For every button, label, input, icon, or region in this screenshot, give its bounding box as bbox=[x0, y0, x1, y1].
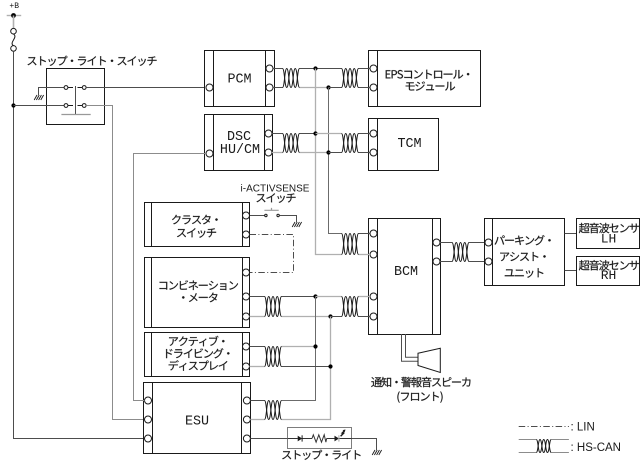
svg-text:PCM: PCM bbox=[227, 73, 251, 88]
ESU pin left 3 bbox=[145, 435, 152, 442]
module parking assist unit box bbox=[485, 219, 565, 286]
junction dot bus B row4 bbox=[328, 364, 332, 368]
switch contact top-right bbox=[82, 86, 86, 90]
wire pair to bus A dot row3 bbox=[282, 296, 316, 298]
wire parking to sensor RH bbox=[565, 270, 577, 272]
wire +B rail to switch lower contact bbox=[14, 105, 65, 107]
bus B vertical lower segment bbox=[282, 317, 331, 420]
wire +B rail down to ESU pin 3 bbox=[14, 51, 145, 438]
wire BCM pin r2 to pair bbox=[440, 261, 452, 263]
wire bus B dot to TCM pair bbox=[329, 152, 342, 154]
svg-text:+B: +B bbox=[9, 2, 19, 11]
bus A vertical upper segment bbox=[316, 69, 342, 255]
wire pair to EPS pin1 bbox=[359, 68, 371, 70]
module ultrasonic sensor RH box bbox=[577, 257, 640, 286]
DSC pin left bbox=[206, 150, 213, 157]
switch actuator bar bbox=[61, 114, 90, 116]
module DSC HU/CM box bbox=[205, 115, 273, 171]
ground at stop light bbox=[372, 450, 375, 455]
svg-text:LH: LH bbox=[601, 231, 617, 246]
module BCM box bbox=[369, 219, 441, 335]
module ESU box bbox=[144, 383, 251, 454]
wire i-ACTIVSENSE switch to ground bbox=[280, 216, 297, 223]
twisted pair ESU bbox=[265, 401, 282, 420]
i-ACTIVSENSE switch actuator bbox=[264, 208, 278, 210]
speaker (front warning) bbox=[418, 348, 440, 372]
combination meter pin 2 bbox=[243, 293, 250, 300]
cluster switch pin 2 bbox=[243, 231, 250, 238]
BCM pin left 2 bbox=[370, 251, 377, 258]
ground at i-ACTIVSENSE switch bbox=[292, 222, 295, 227]
label EPS line1 bbox=[386, 70, 470, 79]
wire switch to ESU pin 2 bbox=[86, 106, 144, 420]
twisted pair DSC side bbox=[283, 134, 300, 153]
module combination meter box bbox=[145, 258, 250, 328]
diode D1 bbox=[298, 436, 302, 441]
label stop light bbox=[282, 450, 360, 460]
resistor (stop light bulb) bbox=[312, 435, 327, 442]
wire pair to bus A dot row2 bbox=[300, 133, 316, 135]
svg-text:i-ACTIVSENSE: i-ACTIVSENSE bbox=[241, 183, 310, 194]
wire parking to sensor LH bbox=[565, 233, 577, 235]
module cluster switch box bbox=[145, 203, 250, 247]
wire pair to bus B dot row3 bbox=[282, 316, 331, 318]
wire BCM pin r1 to pair bbox=[440, 242, 452, 244]
twisted pair combination meter bbox=[265, 297, 282, 317]
combination meter pin 3 bbox=[243, 313, 250, 320]
wire ESU pin1 to pair bbox=[250, 400, 264, 402]
parking assist pin 1 bbox=[485, 239, 492, 246]
label parking line3 bbox=[505, 268, 544, 278]
node +B terminal bar bbox=[7, 15, 22, 17]
wire cluster switch to i-ACTIVSENSE switch bbox=[250, 215, 265, 217]
ESU pin left 2 bbox=[145, 416, 152, 423]
wire bus B dot to BCM lower pair bbox=[331, 316, 342, 318]
wire DSC pin2 to pair bbox=[272, 152, 283, 154]
wire pair to parking pin2 bbox=[469, 261, 485, 263]
twisted pair PCM side bbox=[283, 69, 300, 88]
wire BCM to speaker 2 bbox=[406, 334, 418, 357]
twisted pair BCM to parking assist bbox=[452, 243, 469, 262]
junction dot bus A row1 bbox=[313, 66, 317, 70]
bus B vertical upper segment bbox=[329, 88, 342, 234]
fuse F1 (fusible link) bbox=[11, 28, 17, 34]
wire stop light to ground bbox=[352, 439, 377, 451]
svg-text:ESU: ESU bbox=[185, 415, 209, 430]
label sensor RH line1 bbox=[579, 260, 639, 270]
LED arrow bbox=[341, 430, 345, 436]
module TCM box bbox=[369, 119, 439, 171]
wire pair to parking pin1 bbox=[469, 242, 485, 244]
twisted pair BCM upper bbox=[342, 234, 359, 255]
TCM pin 2 bbox=[370, 149, 377, 156]
twisted pair BCM lower bbox=[342, 297, 359, 317]
wire DSC pin1 to pair bbox=[272, 133, 283, 135]
switch plunger bar bbox=[75, 86, 77, 115]
twisted pair EPS side bbox=[342, 69, 359, 88]
junction dot stop-light-switch branch bbox=[11, 103, 15, 107]
junction dot bus B row3 bbox=[328, 314, 332, 318]
ground at stop light switch bbox=[34, 95, 37, 100]
wire bus A dot to TCM pair bbox=[316, 133, 342, 135]
switch contact bottom-left bbox=[64, 104, 68, 108]
junction dot bus A row2 bbox=[313, 131, 317, 135]
diode D2 (LED) bbox=[335, 436, 339, 441]
switch contact top-left bbox=[64, 86, 68, 90]
legend twisted pair bbox=[536, 440, 551, 453]
switch contact stubs bbox=[68, 87, 73, 89]
module active driving display box bbox=[145, 333, 250, 377]
i-ACTIVSENSE switch contact right bbox=[277, 214, 279, 216]
ESU pin right 3 bbox=[243, 435, 250, 442]
i-ACTIVSENSE switch contact left bbox=[265, 214, 267, 216]
PCM pin left bbox=[206, 84, 213, 91]
legend LIN line bbox=[519, 426, 569, 428]
label stop light switch bbox=[28, 56, 157, 66]
BCM pin right 1 bbox=[433, 239, 440, 246]
label ADD line2 bbox=[166, 348, 230, 358]
wire BCM to speaker 1 bbox=[402, 334, 418, 361]
label speaker line1 bbox=[371, 377, 470, 387]
EPS pin 1 bbox=[370, 65, 377, 72]
parking assist pin 2 bbox=[485, 258, 492, 265]
label parking line1 bbox=[495, 235, 551, 245]
junction dot bus A row3 bbox=[313, 294, 317, 298]
wire PCM pin1 to pair bbox=[273, 68, 283, 70]
switch contact bottom-right bbox=[82, 104, 86, 108]
twisted pair active driving display bbox=[265, 347, 282, 367]
svg-text:RH: RH bbox=[601, 268, 617, 283]
label cluster switch line2 bbox=[177, 228, 216, 238]
BCM pin left 4 bbox=[370, 313, 377, 320]
label sensor LH line1 bbox=[579, 223, 639, 233]
label ADD line3 bbox=[169, 360, 228, 370]
label ADD line1 bbox=[169, 336, 224, 347]
wire +B down to fuse bbox=[13, 16, 15, 29]
label parking line2 bbox=[500, 252, 545, 261]
wire ADD pin2 to pair bbox=[250, 366, 265, 368]
BCM pin left 3 bbox=[370, 293, 377, 300]
module ultrasonic sensor LH box bbox=[577, 219, 640, 249]
module PCM box bbox=[205, 51, 275, 107]
DSC pin right 2 bbox=[265, 149, 272, 156]
label EPS line2 bbox=[406, 81, 455, 90]
PCM pin right 1 bbox=[266, 65, 273, 72]
wire ESU pin2 to pair bbox=[250, 419, 264, 421]
svg-text:TCM: TCM bbox=[397, 137, 421, 152]
wire DSC to ESU pin left 1 bbox=[134, 154, 207, 401]
ESU pin right 2 bbox=[243, 416, 250, 423]
wire CAN-H PCM to EPS pair bbox=[300, 68, 342, 70]
wire ADD pin1 to pair bbox=[250, 346, 265, 348]
label i-ACTIVSENSE switch line2 bbox=[257, 193, 296, 203]
wire pair to BCM pin1 bbox=[359, 233, 371, 235]
wire switch to ground bbox=[39, 88, 65, 96]
ADD pin 1 bbox=[243, 343, 250, 350]
wire PCM pin2 to pair bbox=[273, 87, 283, 89]
wire pair to BCM pin2 bbox=[359, 254, 371, 256]
module EPS control module box bbox=[369, 51, 481, 107]
wire pair to TCM pin2 bbox=[359, 152, 371, 154]
wire meter pin3 to pair bbox=[250, 316, 265, 318]
wire ESU to stop light bbox=[250, 438, 287, 440]
twisted pair TCM side bbox=[342, 134, 359, 153]
label combination meter line1 bbox=[160, 280, 239, 290]
junction dot bus A row4 bbox=[313, 344, 317, 348]
wire pair to bus B dot row4 bbox=[282, 366, 331, 368]
wire pair to EPS pin2 bbox=[359, 87, 371, 89]
label speaker line2 bbox=[397, 391, 442, 402]
BCM pin right 2 bbox=[433, 258, 440, 265]
svg-text:: LIN: : LIN bbox=[571, 422, 595, 434]
PCM pin right 2 bbox=[266, 84, 273, 91]
stop light box bbox=[288, 428, 352, 449]
wire pair to TCM pin1 bbox=[359, 133, 371, 135]
svg-text:HU/CM: HU/CM bbox=[220, 143, 260, 158]
stop light switch S1 box bbox=[47, 69, 105, 125]
svg-text:BCM: BCM bbox=[394, 265, 418, 280]
junction dot bus B row2 bbox=[326, 150, 330, 154]
svg-text:: HS-CAN: : HS-CAN bbox=[571, 442, 621, 454]
ESU pin right 1 bbox=[243, 397, 250, 404]
wire meter pin2 to pair bbox=[250, 296, 265, 298]
bus A vertical lower segment bbox=[282, 297, 316, 401]
TCM pin 1 bbox=[370, 130, 377, 137]
wire pair to BCM pin4 bbox=[359, 316, 371, 318]
BCM pin left 1 bbox=[370, 230, 377, 237]
wire switch to PCM bbox=[86, 87, 206, 89]
wire bus B dot to EPS pair bbox=[329, 87, 342, 89]
stop light internal wire bbox=[288, 438, 352, 440]
DSC pin right 1 bbox=[265, 130, 272, 137]
LIN wire cluster switch to combination meter bbox=[250, 235, 294, 273]
label combination meter line2 bbox=[182, 293, 217, 303]
combination meter pin 1 (LIN) bbox=[243, 269, 250, 276]
wire CAN-L to bus B dot bbox=[300, 87, 329, 89]
ESU pin left 1 bbox=[145, 397, 152, 404]
EPS pin 2 bbox=[370, 84, 377, 91]
junction dot on +B rail bbox=[11, 13, 16, 18]
wire bus A dot to BCM lower pair bbox=[316, 296, 342, 298]
wire pair to bus A dot row4 bbox=[282, 346, 316, 348]
wire pair to bus B dot row2 bbox=[300, 152, 329, 154]
wire pair to BCM pin3 bbox=[359, 296, 371, 298]
cluster switch pin 1 bbox=[243, 212, 250, 219]
label cluster switch line1 bbox=[172, 215, 218, 225]
legend HS-CAN wires bbox=[519, 439, 537, 441]
junction dot bus B row1 bbox=[326, 85, 330, 89]
ADD pin 2 bbox=[243, 363, 250, 370]
